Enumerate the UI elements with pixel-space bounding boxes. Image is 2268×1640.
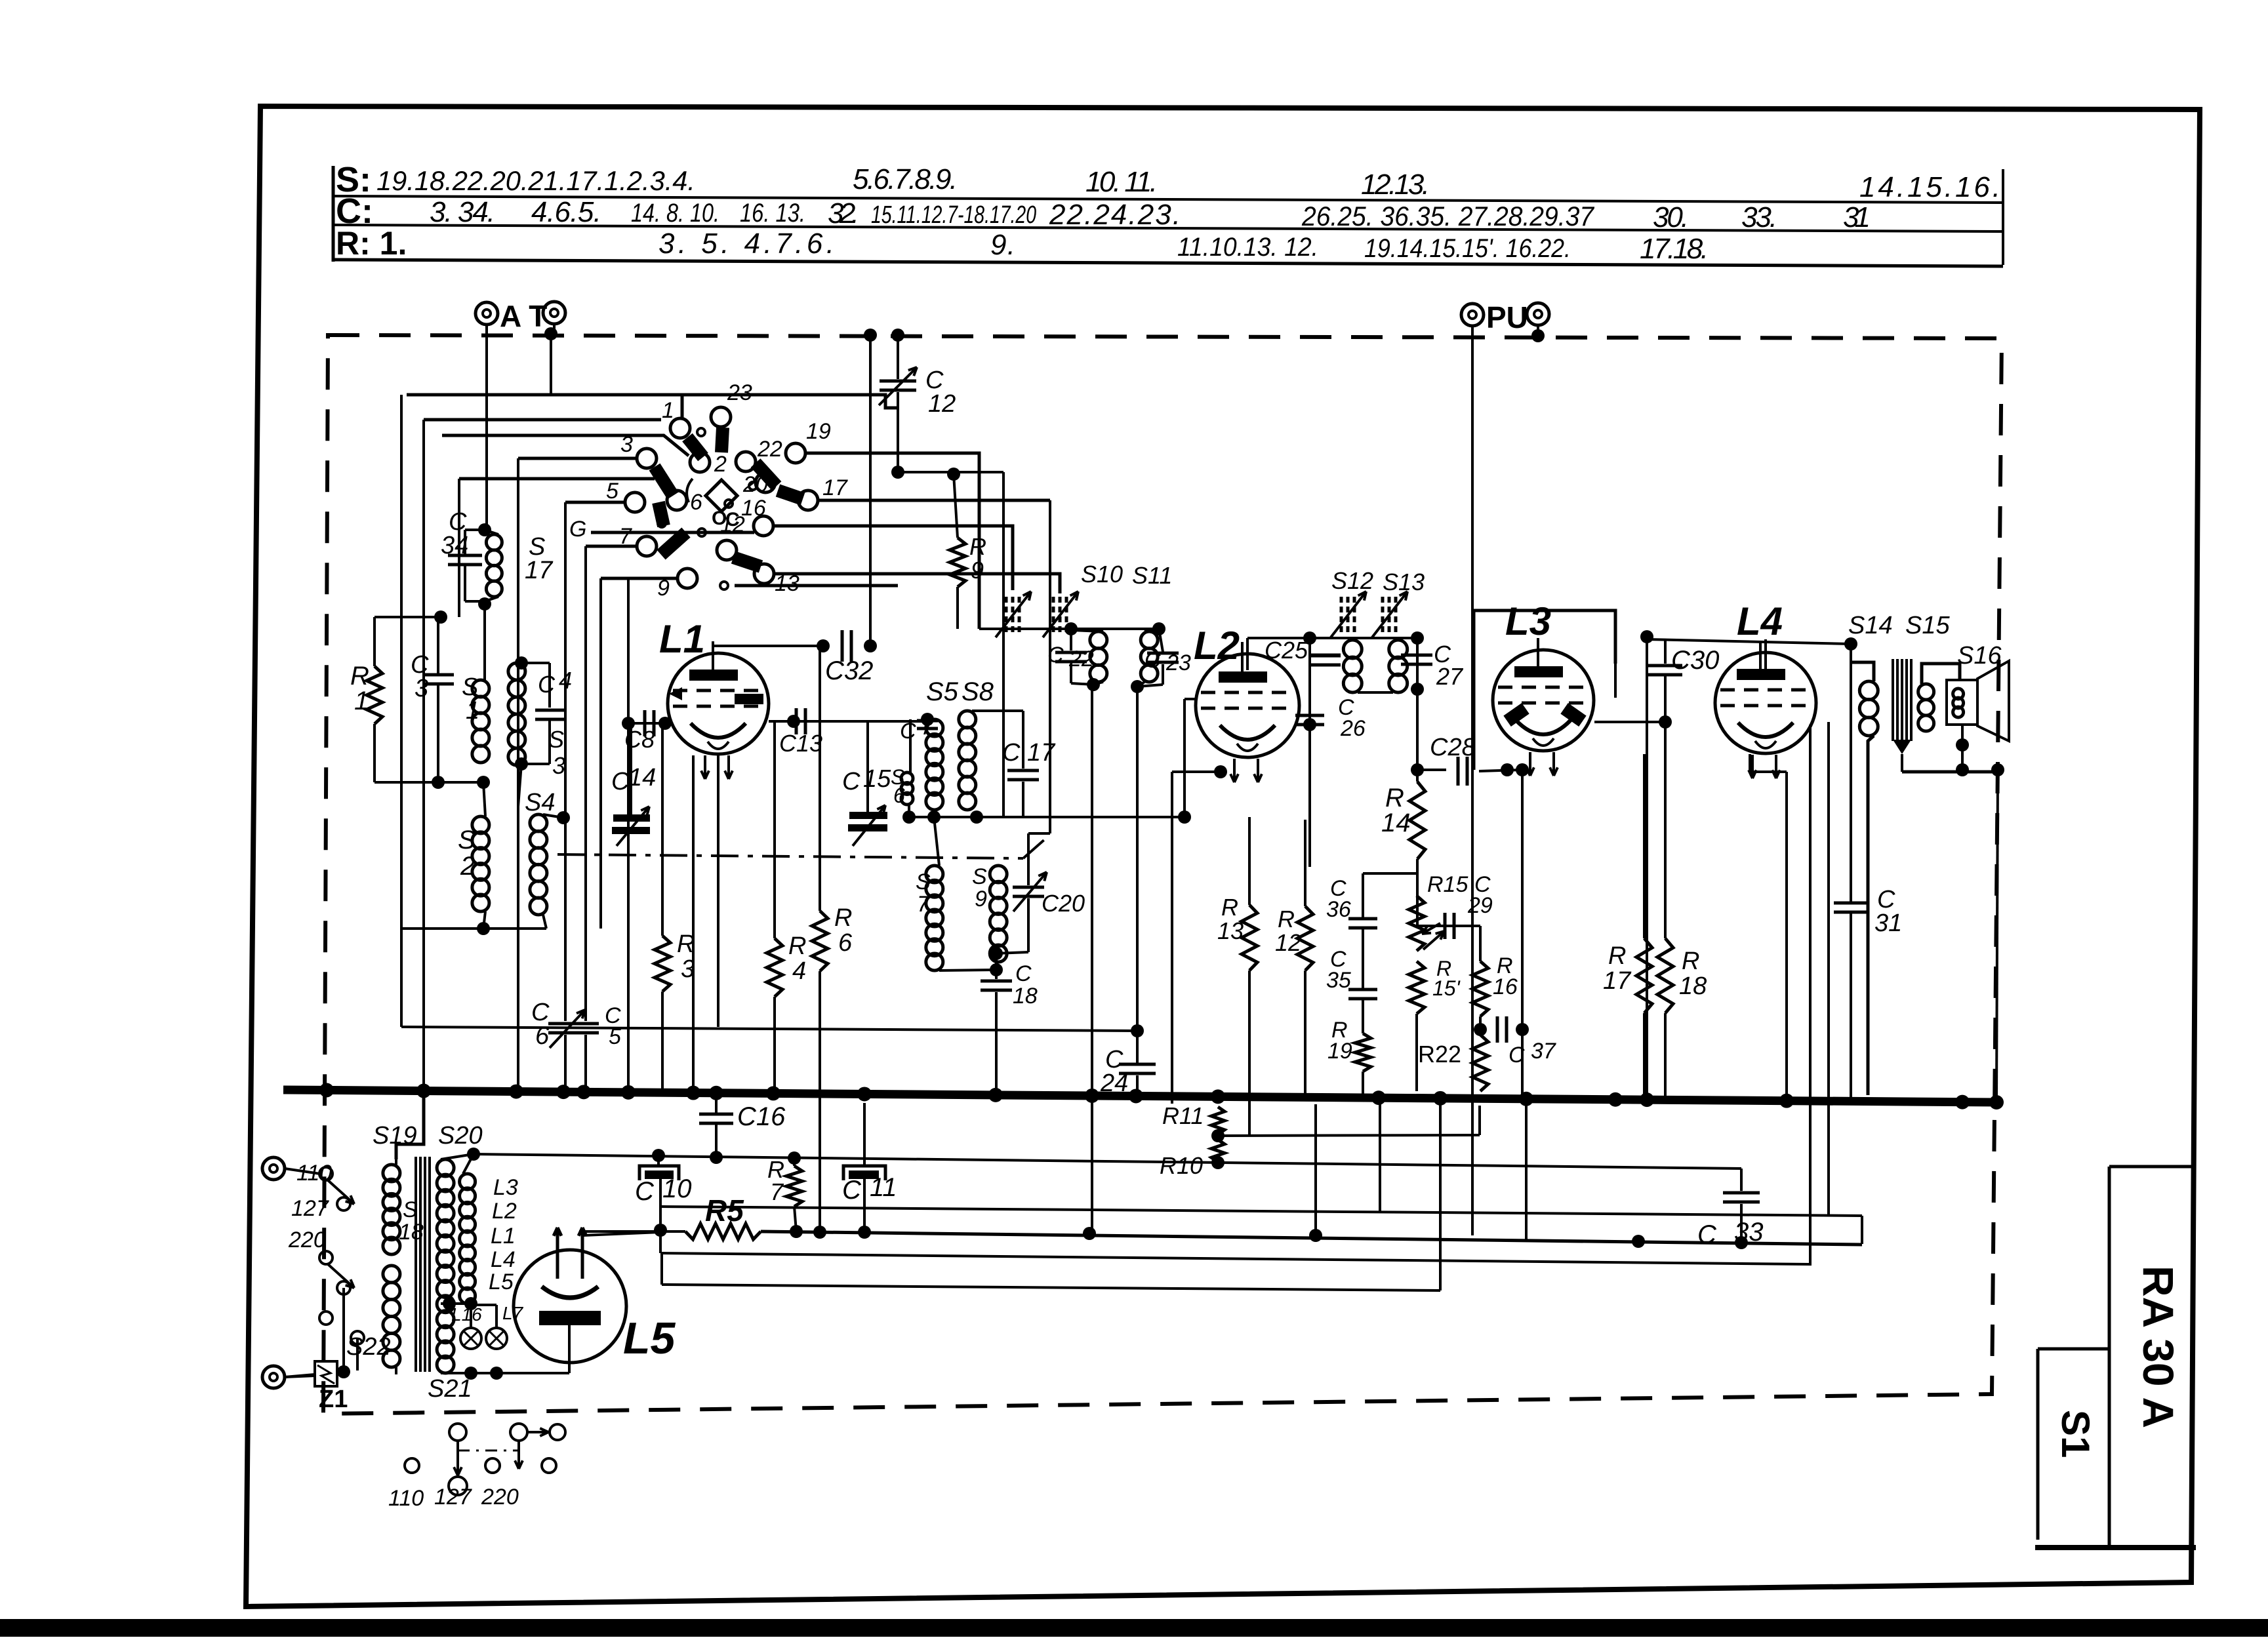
svg-text:22: 22 bbox=[757, 437, 782, 462]
svg-text:C: C bbox=[1015, 961, 1032, 986]
svg-text:R11: R11 bbox=[1162, 1102, 1204, 1129]
svg-text:4.6.5.: 4.6.5. bbox=[531, 196, 601, 228]
svg-text:6: 6 bbox=[690, 490, 702, 515]
svg-text:S20: S20 bbox=[438, 1122, 483, 1150]
svg-text:11.10.13. 12.: 11.10.13. 12. bbox=[1177, 233, 1318, 262]
svg-text:C25: C25 bbox=[1265, 637, 1308, 664]
svg-text:19: 19 bbox=[1327, 1039, 1352, 1064]
svg-text:7: 7 bbox=[619, 524, 632, 549]
svg-text:R5: R5 bbox=[705, 1193, 744, 1228]
svg-text:R: R bbox=[1221, 894, 1238, 921]
svg-text:C: C bbox=[635, 1177, 655, 1206]
svg-text:G: G bbox=[569, 517, 586, 542]
svg-text:15': 15' bbox=[1432, 976, 1461, 1000]
svg-text:29: 29 bbox=[1467, 893, 1493, 918]
svg-text:34: 34 bbox=[441, 532, 468, 559]
svg-text:26.25. 36.35. 27.28.29.37: 26.25. 36.35. 27.28.29.37 bbox=[1301, 201, 1594, 231]
svg-text:S22: S22 bbox=[346, 1333, 391, 1361]
svg-text:C: C bbox=[611, 768, 630, 795]
svg-text:R22: R22 bbox=[1418, 1041, 1461, 1068]
svg-text:24: 24 bbox=[1100, 1070, 1128, 1097]
svg-text:C8: C8 bbox=[624, 726, 655, 753]
svg-text:L5: L5 bbox=[623, 1313, 676, 1363]
svg-text:C: C bbox=[900, 719, 916, 744]
svg-text:C16: C16 bbox=[737, 1102, 786, 1131]
svg-text:S: S bbox=[972, 864, 987, 889]
svg-text:C30: C30 bbox=[1671, 646, 1719, 675]
svg-text:L2: L2 bbox=[1194, 624, 1240, 668]
svg-text:S: S bbox=[548, 726, 564, 753]
svg-text:17: 17 bbox=[1603, 967, 1632, 995]
svg-text:R15: R15 bbox=[1427, 872, 1468, 897]
svg-text:35: 35 bbox=[1326, 968, 1351, 993]
svg-text:1: 1 bbox=[662, 398, 674, 423]
svg-text:L1: L1 bbox=[491, 1224, 516, 1249]
svg-text:17.18.: 17.18. bbox=[1640, 233, 1709, 265]
svg-text:19: 19 bbox=[806, 419, 831, 444]
svg-text:S4: S4 bbox=[525, 789, 555, 816]
svg-text:L3: L3 bbox=[1505, 599, 1551, 643]
svg-text:1: 1 bbox=[466, 697, 479, 725]
svg-text:37: 37 bbox=[1531, 1039, 1556, 1064]
svg-text:22: 22 bbox=[1068, 647, 1094, 671]
svg-text:C28: C28 bbox=[1430, 734, 1476, 761]
svg-text:4: 4 bbox=[792, 957, 806, 985]
svg-text:6: 6 bbox=[893, 784, 905, 807]
svg-text:11: 11 bbox=[870, 1173, 897, 1202]
svg-text:S: S bbox=[916, 870, 931, 894]
svg-text:127: 127 bbox=[434, 1485, 472, 1510]
svg-text:17: 17 bbox=[525, 557, 554, 584]
svg-text:S11: S11 bbox=[1132, 562, 1172, 589]
svg-text:31: 31 bbox=[1874, 910, 1902, 937]
svg-text:C: C bbox=[842, 1176, 862, 1205]
svg-text:L1: L1 bbox=[659, 617, 705, 661]
svg-text:3. 34.: 3. 34. bbox=[430, 196, 495, 228]
svg-text:R: R bbox=[834, 904, 852, 932]
svg-text:S8: S8 bbox=[962, 677, 994, 706]
svg-text:2: 2 bbox=[714, 452, 727, 477]
svg-text:C: C bbox=[842, 768, 861, 795]
svg-text:9.: 9. bbox=[990, 229, 1015, 261]
svg-text:10. 11.: 10. 11. bbox=[1085, 166, 1158, 198]
svg-text:14: 14 bbox=[1381, 809, 1411, 837]
svg-text:3: 3 bbox=[415, 675, 428, 702]
svg-text:5.6.7.8.9.: 5.6.7.8.9. bbox=[853, 163, 958, 195]
svg-text:S21: S21 bbox=[428, 1375, 472, 1403]
svg-text:36: 36 bbox=[1326, 897, 1351, 922]
svg-text:220: 220 bbox=[481, 1485, 519, 1510]
svg-text:6: 6 bbox=[838, 929, 853, 957]
svg-text:C: C bbox=[1047, 643, 1064, 668]
svg-text:31: 31 bbox=[1843, 201, 1871, 233]
svg-text:2: 2 bbox=[460, 852, 475, 881]
svg-text:L2: L2 bbox=[492, 1199, 517, 1224]
svg-text:S5: S5 bbox=[926, 677, 959, 706]
svg-text:S12: S12 bbox=[1331, 567, 1373, 594]
svg-text:R: R bbox=[677, 930, 695, 958]
svg-text:26: 26 bbox=[1340, 716, 1366, 741]
svg-text:12.13.: 12.13. bbox=[1361, 169, 1430, 201]
svg-text:3: 3 bbox=[552, 752, 565, 779]
svg-text:12: 12 bbox=[928, 390, 956, 418]
svg-text:L5: L5 bbox=[489, 1270, 514, 1294]
svg-text:22.24.23.: 22.24.23. bbox=[1049, 199, 1181, 231]
svg-text:C20: C20 bbox=[1042, 890, 1085, 917]
svg-text:3: 3 bbox=[681, 955, 695, 983]
svg-text:19.14.15.15'. 16.22.: 19.14.15.15'. 16.22. bbox=[1364, 234, 1571, 263]
svg-text:23: 23 bbox=[1165, 650, 1191, 675]
svg-text:7: 7 bbox=[770, 1178, 784, 1205]
svg-text:S: S bbox=[458, 826, 476, 854]
svg-text:A T: A T bbox=[500, 299, 547, 333]
svg-text:127: 127 bbox=[291, 1196, 329, 1221]
svg-text:14.15.16.: 14.15.16. bbox=[1859, 171, 2000, 203]
svg-text:RA 30 A: RA 30 A bbox=[2134, 1266, 2183, 1428]
svg-text:33: 33 bbox=[1734, 1218, 1764, 1247]
svg-text:S10: S10 bbox=[1081, 561, 1123, 588]
svg-text:23: 23 bbox=[727, 380, 752, 405]
svg-text:S1: S1 bbox=[2054, 1410, 2097, 1458]
svg-text:R: R bbox=[1278, 906, 1295, 932]
svg-text:15: 15 bbox=[863, 765, 891, 793]
svg-text:9: 9 bbox=[975, 887, 987, 911]
svg-text:R: R bbox=[1682, 948, 1699, 975]
svg-text:33.: 33. bbox=[1741, 201, 1777, 233]
svg-text:C: C bbox=[538, 671, 556, 698]
svg-text:30.: 30. bbox=[1653, 201, 1689, 233]
svg-text:15.11.12.7-18.17.20: 15.11.12.7-18.17.20 bbox=[871, 201, 1036, 229]
svg-text:13: 13 bbox=[1217, 917, 1244, 944]
svg-text:32.: 32. bbox=[828, 197, 859, 230]
svg-text:1: 1 bbox=[354, 687, 369, 715]
svg-text:18: 18 bbox=[1679, 972, 1707, 1000]
svg-text:27: 27 bbox=[1436, 663, 1464, 690]
svg-text:Z1: Z1 bbox=[319, 1386, 348, 1413]
svg-text:9: 9 bbox=[971, 557, 984, 584]
svg-text:14. 8. 10.: 14. 8. 10. bbox=[631, 199, 719, 228]
svg-text:14: 14 bbox=[628, 764, 656, 791]
svg-text:S13: S13 bbox=[1383, 569, 1425, 595]
svg-text:C: C bbox=[1144, 648, 1161, 673]
svg-text:C32: C32 bbox=[825, 656, 873, 685]
svg-text:3: 3 bbox=[620, 432, 633, 457]
svg-text:16. 13.: 16. 13. bbox=[740, 199, 805, 228]
svg-text:16: 16 bbox=[1493, 974, 1518, 999]
svg-text:O: O bbox=[712, 508, 727, 529]
svg-text:9: 9 bbox=[657, 576, 670, 601]
svg-text:L3: L3 bbox=[493, 1175, 518, 1200]
svg-text:R: R bbox=[788, 932, 806, 960]
svg-text:PU: PU bbox=[1486, 300, 1528, 334]
svg-text:R10: R10 bbox=[1160, 1152, 1203, 1179]
svg-text:16: 16 bbox=[741, 496, 766, 521]
svg-text:17: 17 bbox=[822, 475, 848, 500]
svg-text:110: 110 bbox=[388, 1486, 424, 1511]
svg-text:L4: L4 bbox=[491, 1247, 516, 1272]
svg-text:R: R bbox=[1608, 942, 1626, 970]
svg-text:C 17: C 17 bbox=[1002, 739, 1056, 767]
svg-text:C: C bbox=[1697, 1220, 1717, 1249]
svg-text:C: C bbox=[725, 509, 740, 530]
svg-text:7: 7 bbox=[917, 892, 930, 917]
svg-text:220: 220 bbox=[288, 1228, 326, 1252]
svg-text:12: 12 bbox=[1275, 929, 1301, 956]
svg-text:R: 1.: R: 1. bbox=[336, 225, 407, 262]
svg-text:S16: S16 bbox=[1957, 642, 2002, 670]
svg-text:10: 10 bbox=[662, 1174, 692, 1203]
svg-text:S15: S15 bbox=[1905, 612, 1950, 639]
svg-text:C13: C13 bbox=[779, 730, 822, 757]
svg-text:18: 18 bbox=[1013, 984, 1038, 1009]
svg-text:C: C bbox=[1509, 1043, 1525, 1068]
svg-text:L16: L16 bbox=[451, 1304, 482, 1325]
svg-text:19.18.22.20.21.17.1.2.3.4.: 19.18.22.20.21.17.1.2.3.4. bbox=[376, 165, 695, 196]
svg-text:L4: L4 bbox=[1737, 599, 1783, 643]
svg-text:5: 5 bbox=[606, 479, 618, 504]
svg-text:S14: S14 bbox=[1848, 612, 1893, 639]
svg-text:3. 5. 4.7.6.: 3. 5. 4.7.6. bbox=[658, 228, 834, 260]
svg-text:R: R bbox=[969, 533, 986, 560]
